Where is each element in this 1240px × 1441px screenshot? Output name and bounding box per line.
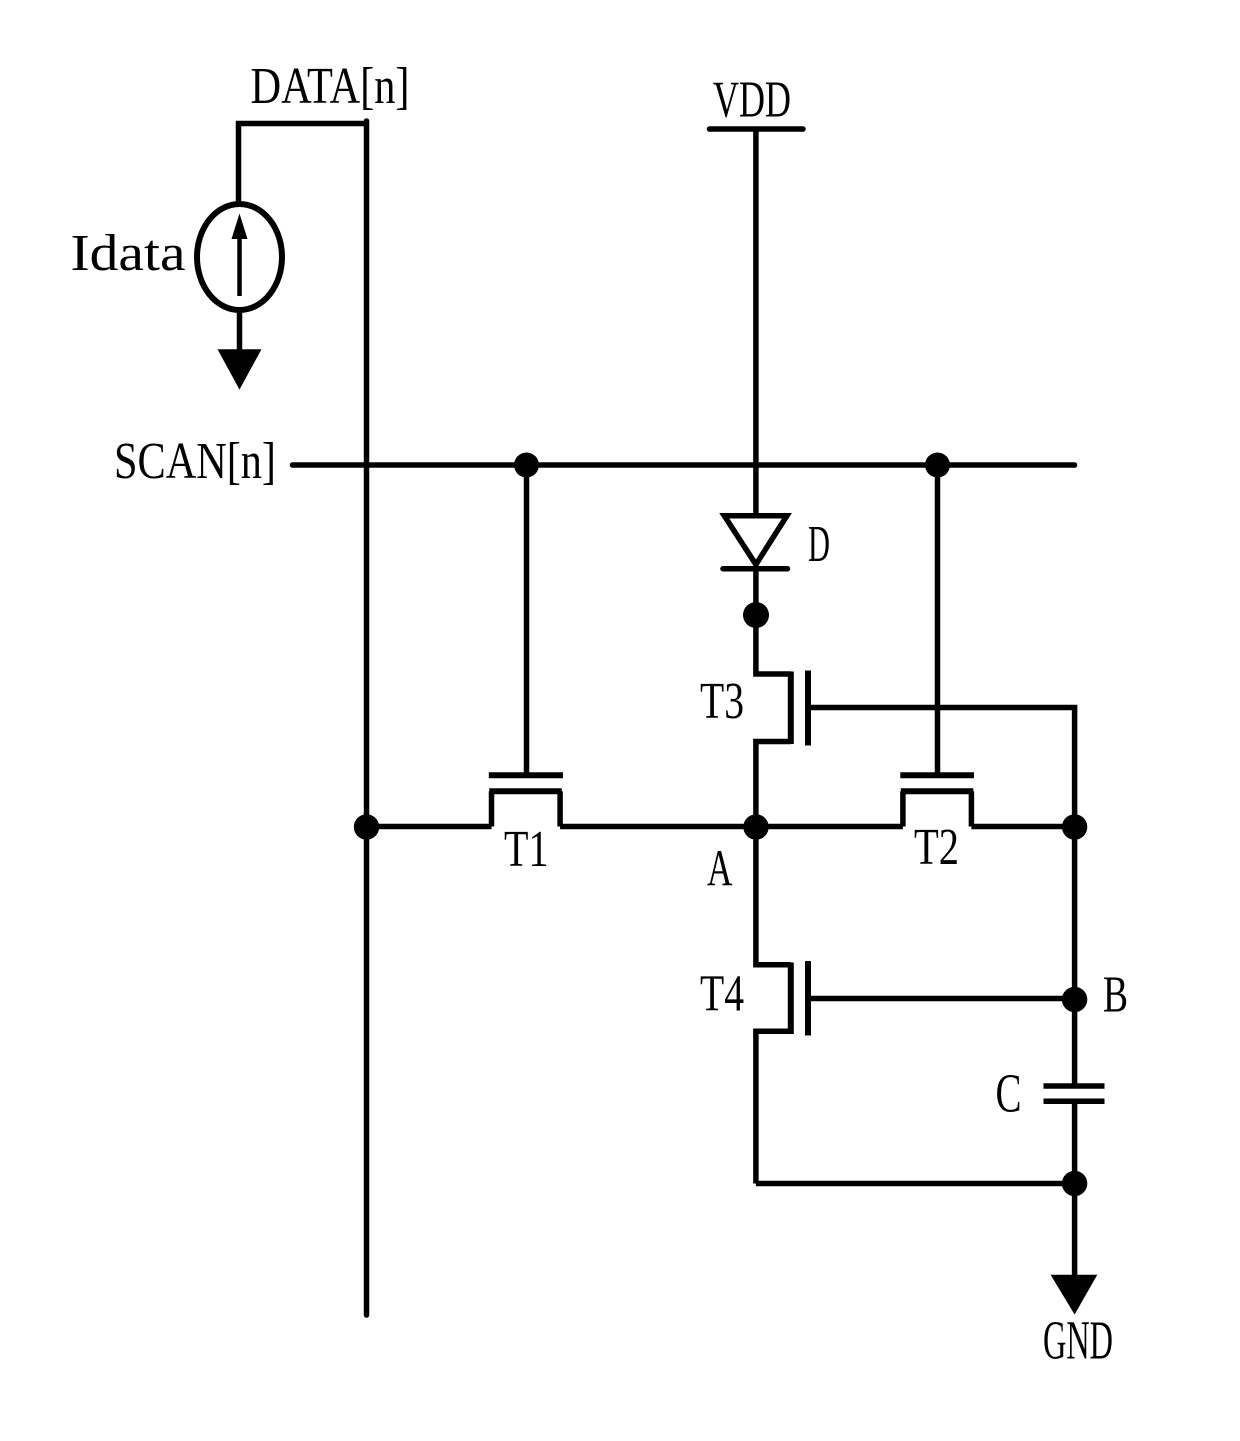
transistor T4 gate bar — [805, 961, 811, 1036]
svg-text:D: D — [808, 516, 830, 573]
capacitor C bottom plate — [1044, 1099, 1105, 1105]
junction dot node B — [1062, 987, 1087, 1012]
wire node to T3 drain — [756, 615, 791, 674]
wire T4 gate to node B — [808, 996, 1075, 1002]
wire T4 source bottom horizontal — [756, 1181, 1075, 1187]
transistor T2 source stub — [969, 791, 975, 826]
svg-text:GND: GND — [1043, 1310, 1113, 1371]
junction dot DATA-row A — [354, 814, 379, 839]
current source I1 output wire — [237, 309, 243, 353]
junction dot row A right column — [1062, 814, 1087, 839]
svg-text:T1: T1 — [504, 821, 549, 878]
wire T1 gate vertical — [524, 465, 530, 773]
wire T2 gate vertical — [935, 465, 941, 773]
transistor T2 drain stub — [900, 791, 906, 826]
junction dot SCAN-T1 gate — [514, 453, 539, 478]
capacitor C top plate — [1044, 1083, 1105, 1089]
transistor T1 channel bar — [489, 788, 562, 794]
wire to GND — [1072, 1184, 1078, 1281]
transistor T3 channel bar — [788, 672, 794, 745]
svg-text:T3: T3 — [700, 673, 744, 730]
svg-text:T4: T4 — [700, 966, 744, 1023]
power VDD bar — [710, 126, 804, 132]
transistor T2 gate bar — [900, 772, 974, 778]
current source I1 arrow head down — [218, 349, 262, 389]
wire VDD vertical — [753, 129, 759, 514]
wire DATA left vertical stub — [236, 121, 242, 206]
wire row A middle segment — [560, 824, 903, 830]
junction dot bottom — [1062, 1171, 1087, 1196]
diode D triangle — [724, 516, 787, 565]
wire capacitor to bottom node — [1072, 1101, 1078, 1186]
svg-text:B: B — [1103, 967, 1128, 1024]
current source I1 circle — [197, 204, 282, 310]
wire row A right segment — [971, 824, 1074, 830]
wire DATA top horizontal — [236, 121, 369, 127]
transistor T3 gate bar — [805, 671, 811, 746]
transistor T1 gate bar — [489, 772, 563, 778]
wire diode to node — [753, 569, 759, 618]
transistor T1 source stub — [557, 791, 563, 826]
wire row A left segment — [367, 824, 492, 830]
wire SCAN[n] horizontal — [293, 462, 1075, 468]
svg-text:SCAN[n]: SCAN[n] — [114, 433, 276, 490]
svg-text:C: C — [996, 1063, 1022, 1124]
wire right column B to capacitor — [1072, 827, 1078, 1084]
junction dot diode-T3 — [743, 602, 769, 628]
transistor T1 drain stub — [489, 791, 495, 826]
ground GND arrow — [1051, 1275, 1098, 1315]
junction dot SCAN-T2 gate — [925, 453, 950, 478]
transistor T3 source jog — [756, 742, 791, 830]
wire DATA[n] vertical bus — [364, 121, 370, 1315]
svg-text:A: A — [707, 841, 733, 898]
transistor T4 source jog — [756, 1031, 791, 1183]
transistor T4 channel bar — [788, 963, 794, 1035]
svg-text:VDD: VDD — [713, 72, 791, 129]
wire T3 gate to right column — [808, 708, 1075, 830]
diode D cathode bar — [723, 566, 788, 572]
svg-text:DATA[n]: DATA[n] — [251, 58, 410, 115]
transistor T2 channel bar — [901, 788, 974, 794]
svg-text:T2: T2 — [914, 819, 959, 876]
wire node A to T4 drain — [756, 827, 791, 965]
svg-text:Idata: Idata — [71, 225, 186, 282]
junction dot node A — [743, 814, 768, 839]
current source I1 arrow up — [237, 234, 242, 296]
